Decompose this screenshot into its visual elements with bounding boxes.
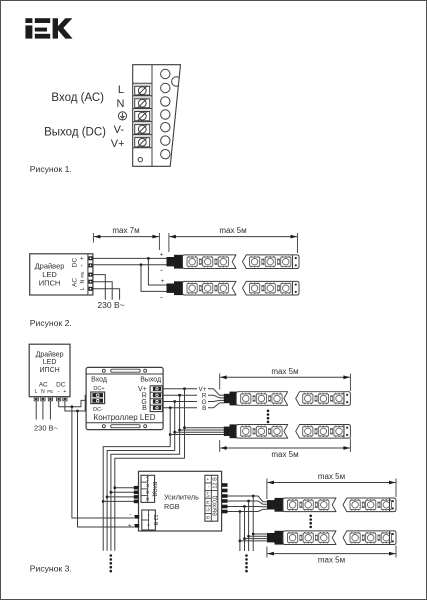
svg-text:Рисунок 2.: Рисунок 2. — [30, 318, 72, 328]
svg-text:230 В~: 230 В~ — [34, 424, 59, 433]
svg-text:max 7м: max 7м — [112, 226, 139, 235]
svg-text:+: + — [63, 389, 66, 395]
svg-text:ВЫХОД: ВЫХОД — [212, 496, 218, 516]
svg-text:12 В: 12 В — [212, 477, 218, 489]
svg-text:ВХОД: ВХОД — [151, 482, 157, 497]
svg-text:ИПСН: ИПСН — [39, 279, 61, 288]
svg-text:Драйвер: Драйвер — [35, 261, 65, 270]
svg-text:-: - — [160, 266, 163, 275]
svg-text:L: L — [80, 287, 86, 290]
svg-text:+: + — [80, 256, 86, 260]
svg-text:N: N — [80, 280, 86, 284]
svg-text:max 5м: max 5м — [271, 450, 298, 459]
svg-text:B: B — [142, 405, 147, 412]
svg-text:+: + — [145, 524, 151, 527]
svg-text:max 5м: max 5м — [318, 472, 345, 481]
svg-text:L: L — [35, 389, 38, 395]
svg-text:G: G — [206, 508, 211, 512]
svg-text:-: - — [145, 514, 151, 516]
svg-text:L: L — [118, 84, 124, 96]
svg-text:Вход: Вход — [91, 377, 107, 384]
svg-text:B: B — [206, 516, 211, 519]
svg-text:B: B — [202, 405, 206, 412]
svg-text:Выход (DC): Выход (DC) — [44, 127, 106, 139]
svg-text:Выход: Выход — [140, 377, 161, 384]
svg-text:max 5м: max 5м — [318, 556, 345, 565]
svg-text:max 5м: max 5м — [271, 367, 298, 376]
svg-text:-: - — [58, 388, 60, 395]
svg-text:-: - — [160, 292, 163, 301]
svg-text:Вход (АС): Вход (АС) — [51, 92, 104, 104]
svg-text:Рисунок 3.: Рисунок 3. — [30, 564, 72, 574]
svg-text:G: G — [145, 490, 150, 494]
svg-text:RGB: RGB — [164, 502, 180, 511]
svg-text:+: + — [160, 251, 164, 258]
svg-text:Усилитель: Усилитель — [164, 492, 199, 501]
svg-text:DC: DC — [72, 258, 79, 268]
svg-text:AC: AC — [72, 278, 79, 287]
svg-text:230 В~: 230 В~ — [97, 300, 124, 310]
svg-text:N: N — [41, 389, 45, 395]
svg-text:B: B — [145, 497, 150, 500]
svg-text:N: N — [117, 98, 125, 110]
svg-text:12 В: 12 В — [152, 514, 158, 526]
svg-text:V+: V+ — [111, 138, 125, 150]
svg-text:+: + — [206, 477, 211, 480]
svg-text:V+: V+ — [206, 491, 211, 497]
svg-text:Контроллер LED: Контроллер LED — [94, 413, 156, 422]
svg-text:-: - — [130, 512, 132, 518]
svg-text:max 5м: max 5м — [219, 226, 246, 235]
svg-text:PE: PE — [47, 389, 53, 394]
svg-text:V-: V- — [114, 124, 125, 136]
svg-text:+: + — [161, 278, 165, 285]
svg-text:LED: LED — [43, 359, 57, 366]
svg-text:Рисунок 1.: Рисунок 1. — [30, 164, 72, 174]
svg-text:DC+: DC+ — [93, 386, 104, 392]
svg-text:АС: АС — [39, 382, 48, 389]
svg-text:Драйвер: Драйвер — [36, 350, 64, 358]
svg-text:ИПСН: ИПСН — [40, 367, 60, 374]
svg-text:PE: PE — [80, 272, 85, 278]
svg-text:+: + — [128, 524, 132, 530]
svg-text:V+: V+ — [145, 476, 150, 482]
